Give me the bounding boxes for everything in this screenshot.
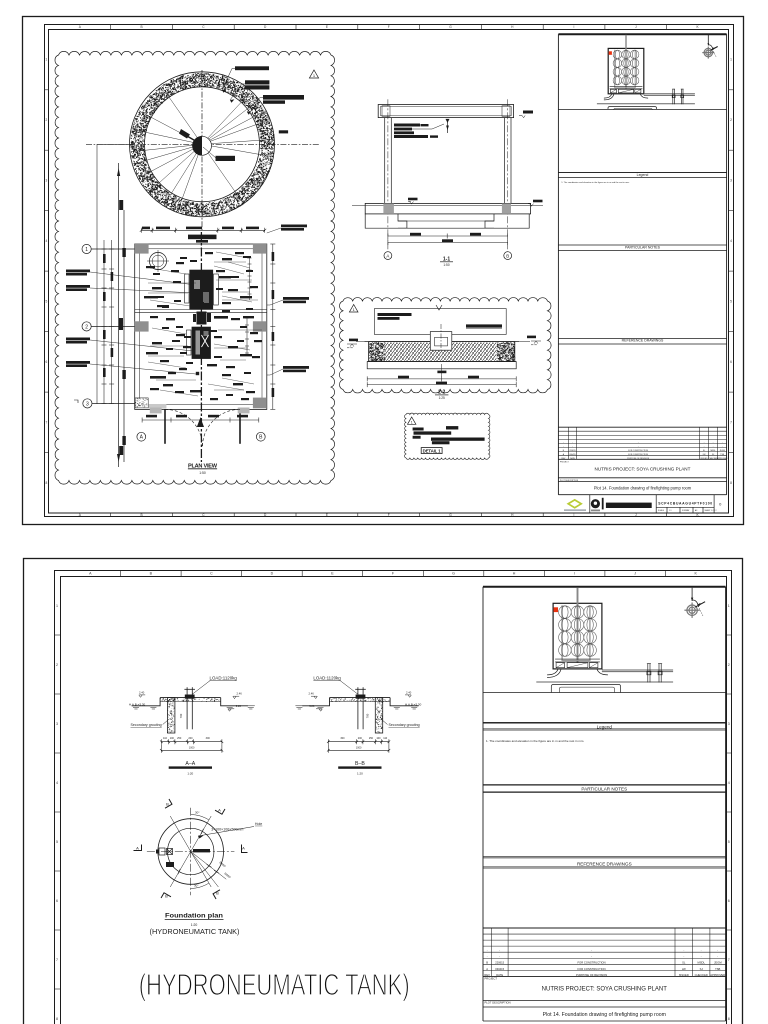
svg-text:1: 1: [730, 58, 732, 62]
svg-text:2: 2: [56, 663, 58, 667]
page 2 ruler ticks and letters: [54, 570, 731, 989]
section 1-1 level mark 3.00 right: [528, 204, 534, 207]
page 1 tank bottle circles: [613, 50, 639, 85]
foundation plan scale label: [188, 235, 217, 240]
svg-text:A: A: [386, 253, 389, 258]
section 1-1 grid bubble A: [384, 252, 392, 260]
column square top-left: [135, 243, 149, 253]
page 1 diamond logo: [568, 500, 581, 508]
svg-text:Plot 14. Foundation drawing of: Plot 14. Foundation drawing of firefight…: [543, 1012, 666, 1018]
svg-text:8: 8: [730, 481, 732, 485]
svg-text:-: -: [717, 956, 718, 959]
column square bottom-right: [253, 398, 267, 409]
svg-text:30°: 30°: [195, 811, 200, 815]
svg-text:DETAIL 1: DETAIL 1: [423, 448, 442, 453]
door dim line: [142, 419, 259, 421]
svg-text:2.46: 2.46: [309, 692, 315, 696]
svg-text:30°: 30°: [194, 884, 199, 888]
svg-text:-: -: [683, 950, 684, 953]
page 2 tank fill pipe: [577, 588, 579, 663]
svg-text:2.40: 2.40: [406, 691, 412, 695]
svg-text:5: 5: [728, 840, 730, 844]
plan sump circle: [149, 252, 166, 269]
svg-text:APPROVED: APPROVED: [710, 973, 725, 977]
svg-text:F: F: [388, 25, 390, 29]
section 2-2 ground level marks: [347, 341, 620, 348]
page 2 title block section lines: [483, 693, 726, 869]
plan outer wall: [135, 244, 267, 409]
svg-text:A: A: [136, 846, 139, 851]
ring vertical centerline (dash-dot): [201, 70, 203, 231]
svg-text:1:50: 1:50: [199, 471, 206, 475]
column square mid-right: [253, 321, 267, 331]
svg-text:-: -: [499, 950, 500, 953]
detail 1 label: [421, 448, 442, 454]
svg-text:-: -: [499, 956, 500, 959]
page 2 tank bottle circles: [559, 606, 597, 657]
page 1 valves: [672, 89, 675, 104]
svg-text:1. The coordinates and elevati: 1. The coordinates and elevation in the …: [561, 181, 629, 184]
svg-text:B: B: [166, 802, 169, 807]
section 1-1 dim lines: [388, 234, 508, 246]
svg-text:ISSUED: ISSUED: [679, 973, 689, 977]
svg-text:LW: LW: [703, 454, 706, 456]
svg-text:B: B: [141, 513, 143, 517]
svg-text:PURPOSE OF REVISION: PURPOSE OF REVISION: [627, 458, 650, 460]
svg-text:SL: SL: [682, 961, 686, 965]
page 1 north arrow: [702, 47, 714, 59]
svg-text:ISSUED: ISSUED: [701, 458, 709, 460]
center hub outer circle: [193, 136, 212, 155]
page 2 red marker: [554, 607, 558, 612]
svg-text:SHEET 1 OF 2: SHEET 1 OF 2: [705, 510, 717, 512]
section 1-1 right footing: [485, 214, 529, 228]
section flag B bottom-left: [161, 893, 171, 902]
svg-text:LOAD:1120kg: LOAD:1120kg: [313, 675, 341, 680]
section 2-2 left speckle block: [369, 342, 385, 362]
svg-text:Secondary grouting: Secondary grouting: [389, 723, 420, 727]
plan right dimension chain: [270, 244, 275, 409]
svg-text:300: 300: [206, 737, 211, 740]
grid bubble 3: [83, 399, 92, 408]
page 1 project band lines: [558, 477, 726, 479]
page 1 ruler frame outer: [45, 25, 734, 517]
plan equipment block upper (pump): [189, 270, 213, 310]
page 1 discharge pipes: [597, 94, 695, 104]
svg-text:I: I: [574, 25, 575, 29]
page 2 ruler frame inner: [61, 577, 727, 1024]
section 2-2 herringbone hatch: [384, 342, 496, 360]
svg-text:-: -: [717, 950, 718, 953]
svg-text:Foundation plan: Foundation plan: [165, 913, 223, 920]
foundation plan inner circle: [168, 828, 214, 874]
svg-text:700: 700: [179, 713, 183, 718]
foundation plan crosshair: [147, 808, 235, 896]
svg-text:1:1: 1:1: [669, 510, 672, 512]
svg-text:B: B: [216, 891, 219, 896]
svg-text:300: 300: [340, 737, 345, 740]
svg-text:1: 1: [85, 247, 88, 253]
section 1-1 right column: [505, 118, 512, 204]
section 2-2 revision triangle: [349, 305, 358, 313]
page 2 foundation inner line: [559, 687, 614, 692]
svg-text:030415: 030415: [569, 454, 575, 456]
plan extra annotation marks: [146, 252, 262, 400]
svg-text:H.A.B.=3.30: H.A.B.=3.30: [405, 702, 422, 706]
svg-text:250: 250: [369, 737, 374, 740]
section 2-2 revision cloud: [339, 298, 551, 393]
svg-text:-: -: [591, 956, 592, 959]
section 1-1 annotation text block: [394, 124, 438, 139]
extra black marks on long dim line: [119, 200, 123, 455]
page 1 ruler tick marks and grid letters: [44, 25, 734, 518]
svg-text:7: 7: [46, 421, 48, 425]
svg-text:2: 2: [730, 118, 732, 122]
svg-text:250: 250: [177, 737, 182, 740]
plan inner wall line: [140, 249, 263, 405]
svg-text:FOR CONSTRUCTION: FOR CONSTRUCTION: [578, 961, 606, 965]
section 2-2 grouting text: [378, 313, 412, 320]
section 1-1 ground line: [352, 204, 543, 206]
svg-text:APPROVED: APPROVED: [717, 457, 728, 460]
svg-text:2.46: 2.46: [236, 692, 242, 696]
svg-text:(HYDRONEUMATIC TANK): (HYDRONEUMATIC TANK): [139, 967, 410, 1002]
detail 1 embeds text: [413, 426, 459, 439]
svg-text:1:50: 1:50: [443, 263, 449, 267]
svg-text:E: E: [326, 25, 328, 29]
svg-text:PLOT DESCRIPTION: PLOT DESCRIPTION: [485, 1001, 511, 1005]
section 1-1 roof beam: [378, 105, 513, 118]
svg-text:3: 3: [56, 722, 58, 726]
svg-text:FOR CONSTRUCTION: FOR CONSTRUCTION: [578, 967, 606, 971]
detail 1 cloud border: [405, 413, 490, 459]
svg-text:B: B: [165, 894, 168, 899]
page 1 sheet outer border: [23, 17, 744, 525]
page 2 tank side pipes: [562, 605, 590, 661]
svg-text:DATE: DATE: [496, 973, 503, 977]
center pump arrow: [179, 129, 190, 139]
svg-text:220615: 220615: [569, 450, 575, 452]
svg-text:JDGM: JDGM: [719, 450, 725, 452]
svg-text:6: 6: [728, 899, 730, 903]
svg-text:7: 7: [730, 421, 732, 425]
svg-text:3: 3: [730, 179, 732, 183]
svg-text:JDGM: JDGM: [714, 961, 722, 965]
svg-text:1. The coordinates and elevati: 1. The coordinates and elevation in the …: [486, 739, 584, 743]
section 1-1 level mark 3.50 left: [408, 202, 414, 205]
svg-text:2: 2: [728, 663, 730, 667]
svg-text:100: 100: [170, 737, 175, 740]
page 2 project band lines: [483, 1000, 726, 1002]
page 1 title block outline: [558, 34, 726, 494]
svg-text:700: 700: [365, 713, 369, 718]
svg-text:1000: 1000: [356, 747, 362, 750]
page 1 revision cloud around foundation plan: [55, 51, 335, 484]
page 2 valves: [647, 664, 651, 683]
svg-text:I: I: [574, 513, 575, 517]
detail 1 revision triangle: [408, 417, 416, 424]
svg-text:1: 1: [411, 420, 413, 424]
ring horizontal centerline (dash-dot): [86, 143, 320, 145]
svg-text:FOR CONSTRUCTION: FOR CONSTRUCTION: [628, 450, 648, 452]
grid bubble A: [137, 432, 146, 441]
plan equipment block lower: [192, 327, 211, 359]
svg-text:PLOT DESCRIPTION: PLOT DESCRIPTION: [560, 480, 579, 482]
svg-text:Secondary grouting: Secondary grouting: [131, 723, 162, 727]
svg-text:-: -: [701, 950, 702, 953]
svg-text:SJ: SJ: [712, 454, 714, 456]
left long vertical dimension line: [119, 163, 124, 467]
svg-text:3.26: 3.26: [236, 704, 242, 708]
section 1-1 left column: [385, 118, 392, 204]
dimension chain below ring: [140, 228, 266, 233]
column square mid-left: [135, 321, 149, 331]
page 2 tank bottom rack: [555, 659, 600, 668]
page 1 tank outlet elbows: [604, 94, 648, 100]
svg-text:3: 3: [86, 401, 89, 407]
svg-text:1:20: 1:20: [187, 772, 193, 776]
page 1 revision table: [558, 427, 726, 459]
svg-text:200: 200: [188, 737, 193, 740]
left annotation labels with leader lines: [66, 270, 90, 368]
svg-text:1: 1: [46, 58, 48, 62]
svg-text:LW: LW: [682, 967, 686, 971]
plan middle wall: [135, 310, 267, 313]
svg-text:7: 7: [728, 958, 730, 962]
svg-text:8: 8: [56, 1017, 58, 1021]
section 2-2 right speckle block: [497, 342, 516, 362]
svg-text:SL: SL: [703, 450, 705, 452]
svg-text:Hole: Hole: [255, 822, 262, 826]
page 1 revision table rows text: [561, 442, 728, 460]
section 1-1 left footing: [365, 214, 407, 228]
svg-text:E: E: [326, 513, 328, 517]
svg-text:110: 110: [163, 737, 168, 740]
svg-text:2: 2: [46, 118, 48, 122]
section 2-2 slab top line: [364, 341, 519, 343]
svg-text:8: 8: [46, 481, 48, 485]
svg-text:1:20: 1:20: [357, 772, 363, 776]
svg-text:B–B: B–B: [355, 761, 365, 767]
left dimension chain pair: [102, 240, 115, 404]
svg-text:G: G: [452, 571, 455, 575]
grid bubble B: [256, 432, 265, 441]
foundation plan radius labels: [218, 861, 231, 880]
grid bubble 1: [82, 244, 91, 253]
svg-text:PARTICULAR NOTES: PARTICULAR NOTES: [581, 787, 627, 792]
plan center axis dark line: [200, 232, 202, 462]
svg-text:J: J: [634, 571, 636, 575]
svg-text:8: 8: [728, 1017, 730, 1021]
foundation plan bolt detail: [159, 848, 173, 855]
section 1-1 level mark 4.50 top right: [523, 111, 533, 114]
page 2 discharge pipes: [536, 670, 673, 682]
svg-text:1: 1: [56, 604, 58, 608]
page 2 sheet outer border: [24, 559, 743, 1024]
page 1 engineering logo: [591, 499, 600, 508]
svg-text:3: 3: [46, 179, 48, 183]
svg-text:6: 6: [56, 899, 58, 903]
svg-text:FOR CONSTRUCTION: FOR CONSTRUCTION: [628, 454, 648, 456]
svg-text:A3: A3: [695, 509, 697, 512]
page 2 revision table: [483, 928, 726, 976]
svg-text:5: 5: [730, 300, 732, 304]
svg-text:REV: REV: [484, 973, 490, 977]
svg-text:100: 100: [376, 737, 381, 740]
section 2-2 anchor pocket: [430, 332, 452, 351]
svg-text:-: -: [591, 950, 592, 953]
svg-text:B: B: [486, 961, 488, 965]
door swing arcs (dashed): [165, 409, 240, 447]
leader end node squares on plan left wall: [194, 282, 199, 375]
svg-text:2.40: 2.40: [139, 691, 145, 695]
foundation plan outer circle: [158, 819, 224, 885]
svg-text:Plot 14. Foundation drawing of: Plot 14. Foundation drawing of firefight…: [594, 486, 692, 491]
porch side stubs: [150, 408, 162, 414]
section 2-2 slab body: [369, 342, 515, 362]
grid bubble 2: [82, 322, 91, 331]
detail 1 plate bar: [431, 438, 485, 441]
svg-text:200: 200: [358, 737, 363, 740]
svg-text:REFERENCE DRAWINGS: REFERENCE DRAWINGS: [622, 339, 664, 343]
section flag B bottom-right: [213, 890, 223, 899]
svg-text:-: -: [701, 956, 702, 959]
svg-text:PARTICULAR NOTES: PARTICULAR NOTES: [625, 246, 661, 250]
svg-text:H.A.B.=3.30: H.A.B.=3.30: [129, 702, 146, 706]
svg-text:-: -: [487, 956, 488, 959]
svg-text:1000: 1000: [189, 747, 195, 750]
svg-text:MSDL: MSDL: [698, 961, 706, 965]
section 2-2 tank outline box: [374, 309, 506, 335]
ring stipple concrete texture: [130, 73, 274, 216]
svg-text:Legend: Legend: [597, 725, 613, 730]
porch walls: [165, 409, 240, 443]
section 1-1 axis dash lines: [388, 99, 508, 251]
svg-text:030415: 030415: [495, 967, 504, 971]
tank ring foundation outer circle: [130, 72, 275, 217]
svg-text:PURPOSE OF REVISION: PURPOSE OF REVISION: [576, 973, 607, 977]
svg-text:NUTRIS PROJECT: SOYA CRUSHING: NUTRIS PROJECT: SOYA CRUSHING PLANT: [595, 466, 691, 471]
svg-text:3: 3: [728, 722, 730, 726]
svg-text:4: 4: [728, 781, 730, 785]
svg-text:5: 5: [56, 840, 58, 844]
svg-text:220615: 220615: [495, 961, 504, 965]
svg-text:5: 5: [46, 300, 48, 304]
foundation plan angle arcs: [191, 815, 209, 889]
svg-text:(HYDRONEUMATIC TANK): (HYDRONEUMATIC TANK): [150, 927, 240, 936]
page 1 location plan tank outline: [608, 48, 644, 93]
svg-text:A–A: A–A: [185, 761, 195, 767]
svg-text:SCP4CBUAAGU4PTF0100: SCP4CBUAAGU4PTF0100: [658, 502, 712, 506]
svg-text:REFERENCE DRAWINGS: REFERENCE DRAWINGS: [577, 862, 632, 867]
page 2 revision table rows text: [484, 950, 725, 977]
page 1 tank side pipes: [615, 50, 636, 88]
section 2-2 hook text: [466, 324, 502, 327]
foundation plan center dim text: [193, 849, 210, 852]
left secondary vertical line: [96, 144, 98, 404]
svg-text:1: 1: [728, 604, 730, 608]
plan dense annotation marks: [144, 252, 258, 393]
plan right-side annotations: [281, 225, 309, 373]
section 2-2 vertical dim: [441, 364, 443, 377]
svg-text:-: -: [487, 950, 488, 953]
svg-text:1: 1: [353, 308, 355, 312]
svg-text:NUTRIS PROJECT: SOYA CRUSHING: NUTRIS PROJECT: SOYA CRUSHING PLANT: [542, 987, 668, 993]
svg-text:PROJECT: PROJECT: [560, 462, 570, 464]
center hub half-filled: [193, 136, 202, 155]
svg-text:6: 6: [46, 360, 48, 364]
page 2 title block outline: [483, 587, 726, 1021]
page 2 north arrow: [684, 603, 699, 618]
page 1 foundation outline: [608, 107, 657, 110]
foundation plan tick marks: [177, 829, 219, 874]
svg-text:CHECKED: CHECKED: [695, 973, 708, 977]
svg-text:A: A: [218, 808, 221, 813]
svg-text:110: 110: [383, 737, 388, 740]
section 2-2 base lines: [367, 361, 516, 363]
svg-text:PROJECT: PROJECT: [485, 977, 498, 981]
page 2 ruler frame outer: [55, 571, 732, 1024]
page 2 location plan tank outline: [553, 603, 602, 669]
page 1 logo band cells: [590, 495, 714, 513]
page 2 section A-A geometry (mirrored): [132, 687, 255, 753]
svg-text:2: 2: [85, 324, 88, 330]
ring leader annotations: [222, 69, 263, 113]
section flag A left: [134, 845, 142, 851]
svg-text:F: F: [388, 513, 390, 517]
column square top-right: [253, 243, 267, 253]
svg-text:A: A: [486, 967, 488, 971]
svg-text:TSB: TSB: [715, 967, 720, 971]
section flag B top-left: [162, 799, 172, 808]
hatched square bottom-left: [135, 398, 148, 408]
hub level text +0.00: [216, 156, 236, 161]
svg-text:6: 6: [730, 360, 732, 364]
svg-text:FORMAT: FORMAT: [682, 509, 690, 512]
svg-text:I: I: [574, 571, 575, 575]
svg-text:4: 4: [46, 239, 48, 243]
svg-text:MSDL: MSDL: [710, 450, 715, 452]
section 1-1 footing middle line: [398, 220, 494, 222]
svg-text:1:25: 1:25: [439, 396, 445, 400]
section 2-2 dim lines: [367, 376, 516, 387]
svg-text:H: H: [513, 571, 516, 575]
foundation plan diagonal section lines: [170, 816, 226, 887]
page 1 tank fill pipe: [625, 35, 627, 90]
svg-text:-: -: [683, 956, 684, 959]
svg-text:4: 4: [56, 781, 58, 785]
section flag B top-right: [215, 805, 225, 814]
page 2 foundation outline: [551, 685, 620, 693]
ring radial spokes: [131, 86, 272, 211]
svg-text:B: B: [506, 253, 509, 258]
section 1-1 grid bubble B: [504, 252, 512, 260]
tank ring foundation inner circle: [145, 87, 260, 202]
svg-text:4: 4: [730, 239, 732, 243]
page 2 tank outlet elbows: [547, 669, 608, 678]
svg-text:C: C: [210, 571, 213, 575]
revision triangle near cloud top right: [309, 70, 318, 78]
svg-text:LOAD:1120kg: LOAD:1120kg: [210, 675, 238, 680]
section flag A right: [242, 845, 248, 853]
svg-text:7: 7: [56, 958, 58, 962]
page 1 foundation inner line: [614, 109, 652, 110]
svg-text:A: A: [242, 846, 245, 851]
svg-text:SCALE: SCALE: [658, 509, 665, 512]
svg-text:3.26: 3.26: [309, 704, 315, 708]
page 1 ruler frame inner (drawing frame): [49, 30, 729, 514]
page 1 title block section lines: [558, 109, 726, 344]
